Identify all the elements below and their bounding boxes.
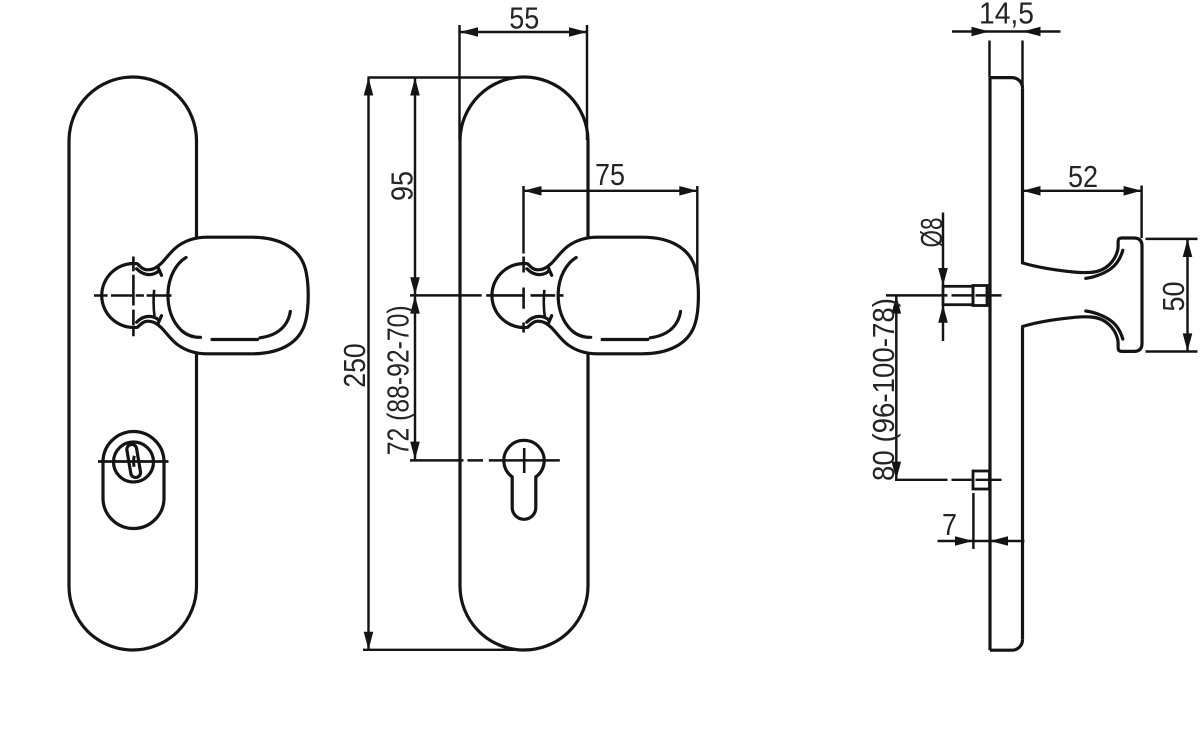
dimension Ø8 [942, 213, 944, 342]
svg-text:55: 55 [509, 1, 539, 36]
knob front silhouette (left view) [102, 237, 308, 354]
side knob outline [1023, 238, 1143, 351]
dimension 75 [524, 186, 698, 278]
middle plate outline [460, 77, 588, 650]
dimension 14,5 [952, 32, 1061, 89]
svg-text:52: 52 [1068, 159, 1098, 194]
svg-text:95: 95 [385, 171, 420, 201]
side knob fill [1023, 238, 1143, 351]
lower screw centerline [895, 479, 1002, 481]
knob center extension line [410, 294, 482, 296]
bottom extension line (250) [363, 649, 516, 651]
svg-text:250: 250 [337, 343, 372, 388]
top extension line (250/95) [368, 76, 518, 78]
keyhole centerline (middle view) [410, 459, 560, 461]
svg-text:72 (88-92-70): 72 (88-92-70) [381, 305, 416, 455]
dimension 52 [1023, 186, 1142, 239]
knob inner contour arcs (left view) [137, 258, 291, 340]
svg-text:50: 50 [1156, 282, 1191, 312]
knob inner contour arcs (middle view) [527, 258, 681, 340]
svg-text:80 (96-100-78): 80 (96-100-78) [866, 298, 901, 481]
knob front silhouette (middle view) [492, 237, 698, 354]
side plate bar [990, 78, 1023, 651]
dimension 95 [414, 78, 416, 296]
lower fixing screw nut (side view) [973, 471, 990, 489]
knob centerline cross (middle view) [486, 257, 563, 333]
keyway (left view) [126, 444, 141, 479]
dimension 50 [1146, 239, 1198, 352]
svg-text:14,5: 14,5 [979, 0, 1034, 31]
knob centerline cross (left view) [94, 257, 172, 337]
svg-text:Ø8: Ø8 [914, 218, 949, 248]
upper fixing screw (side view) [943, 286, 987, 306]
dimension 55 [460, 25, 588, 140]
dimension 7 [938, 493, 1025, 549]
side knob inner fold arcs [1086, 250, 1123, 339]
cylinder circle (left view) [114, 442, 154, 482]
svg-text:7: 7 [942, 507, 957, 542]
escutcheon centerline (left view) [98, 460, 169, 463]
keyhole vertical center tick (middle view) [523, 448, 526, 473]
security escutcheon oval (left view) [103, 432, 164, 529]
svg-text:75: 75 [595, 157, 625, 192]
dimension 80 (96-100-78) [895, 296, 897, 480]
euro profile keyhole (middle view) [504, 440, 544, 519]
left plate outline [69, 77, 197, 650]
dimension 250 [367, 78, 369, 650]
dimension 72 (88-92-70) [414, 296, 416, 460]
upper screw centerline [886, 294, 1002, 296]
